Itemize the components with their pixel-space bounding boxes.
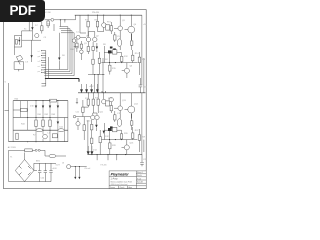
resistor R13: [121, 53, 123, 63]
svg-text:C1: C1: [76, 32, 79, 34]
resistor R21d: [99, 137, 101, 143]
svg-text:Q1: Q1: [84, 43, 88, 45]
diode D10: [108, 128, 112, 131]
transistor Q3 power: [128, 26, 135, 33]
svg-text:K1: K1: [24, 29, 27, 31]
relay RL2: [106, 101, 110, 106]
svg-text:R42: R42: [45, 114, 50, 116]
fuse F3: [58, 129, 64, 132]
svg-text:R29: R29: [142, 137, 147, 139]
resistor R35: [16, 133, 18, 139]
svg-text:J3: J3: [62, 163, 65, 165]
svg-text:in L: in L: [38, 51, 41, 53]
resistor R27: [132, 127, 134, 140]
svg-text:C20: C20: [41, 178, 46, 180]
svg-text:R43: R43: [52, 114, 57, 116]
resistor R26: [121, 130, 123, 139]
wire: [71, 167, 87, 177]
wire bus bracket 3: [44, 31, 72, 74]
diode D2: [31, 40, 33, 62]
svg-text:+35V: +35V: [89, 86, 94, 88]
ground bus: [45, 79, 79, 82]
switch SW1: [35, 149, 37, 151]
capacitor C8: [38, 163, 41, 181]
node A: [60, 19, 61, 20]
svg-text:Drawn: Drawn: [110, 186, 115, 189]
svg-text:R14: R14: [135, 53, 140, 55]
resistor R15: [109, 63, 111, 75]
svg-text:+50: +50: [143, 24, 147, 26]
svg-text:Q3: Q3: [122, 20, 126, 22]
svg-text:D14: D14: [93, 150, 98, 152]
svg-text:Check: Check: [120, 187, 125, 189]
resistor R18: [92, 93, 94, 113]
wire: [9, 150, 51, 181]
svg-text:C15: C15: [117, 113, 122, 115]
wire: [75, 36, 86, 38]
svg-text:AC 230V: AC 230V: [8, 146, 17, 149]
diode arrow: [80, 84, 82, 92]
svg-text:R26: R26: [124, 133, 129, 135]
capacitor C5 input: [73, 115, 76, 118]
resistor R16: [138, 52, 140, 75]
resistor R9: [87, 42, 89, 54]
wire: [80, 15, 104, 36]
svg-text:Q10: Q10: [87, 121, 92, 123]
connector J1: [45, 51, 47, 80]
wire stubs below rail: [97, 155, 117, 161]
svg-text:D7: D7: [35, 25, 38, 27]
diode arrow: [90, 84, 92, 92]
wire: [93, 113, 97, 115]
resistor R5: [76, 39, 78, 52]
wire: [32, 150, 49, 156]
fuse F1: [51, 18, 54, 21]
bridge rectifier BR1: [15, 160, 34, 182]
svg-text:fb: fb: [5, 82, 6, 84]
svg-text:RY1: RY1: [107, 22, 112, 24]
wire: [53, 24, 55, 31]
wire ladder verticals: [9, 83, 68, 142]
wire left branch: [14, 36, 21, 56]
wire input corner: [22, 22, 41, 40]
power rail 0V: [78, 92, 146, 94]
transistor Q1: [103, 15, 105, 31]
svg-text:Size A4: Size A4: [137, 181, 143, 184]
resistor R32: [35, 120, 37, 127]
resistor R7: [97, 15, 99, 31]
transistor Q5: [93, 37, 97, 41]
wire: [95, 58, 103, 93]
svg-text:ETI-480: ETI-480: [101, 164, 107, 166]
wire bus bracket 4: [44, 33, 74, 76]
svg-text:Q6: Q6: [130, 66, 134, 68]
phono plug P1: [16, 55, 22, 61]
wire mid row ch1: [101, 62, 137, 64]
wire: [76, 98, 89, 107]
resistor R21: [83, 117, 85, 140]
svg-text:T1: T1: [10, 157, 13, 159]
resistor R29: [138, 129, 140, 152]
node stub: [102, 91, 103, 92]
svg-text:Playmaster: Playmaster: [111, 172, 130, 176]
resistor R36: [52, 134, 57, 138]
svg-text:D8: D8: [62, 55, 65, 57]
transistor Q13: [124, 145, 129, 150]
node arrow: [5, 109, 9, 111]
svg-text:Scale: Scale: [137, 178, 141, 180]
diode D3: [58, 33, 60, 70]
diode D9: [113, 128, 116, 130]
svg-text:1-Amp: 1-Amp: [111, 178, 119, 181]
potentiometer VR1: [72, 39, 76, 43]
transistor Q1b: [80, 50, 84, 54]
capacitor C7: [140, 155, 144, 167]
svg-text:R28: R28: [112, 145, 117, 147]
wire bias row ch2: [104, 123, 121, 140]
svg-text:D10: D10: [30, 106, 35, 108]
capacitor C6: [117, 119, 121, 127]
svg-text:R8: R8: [103, 44, 106, 46]
wire: [87, 120, 89, 155]
ground arrow: [87, 146, 90, 154]
diode D8: [110, 126, 113, 128]
capacitor C10: [49, 163, 52, 181]
diode D13c: [103, 131, 106, 134]
resistor R34: [49, 120, 51, 127]
diode D13b: [95, 125, 98, 128]
wire bias row: [104, 46, 121, 63]
wire: [89, 32, 95, 38]
svg-text:+40V: +40V: [52, 168, 57, 170]
svg-text:F2: F2: [33, 135, 36, 137]
svg-text:pwr: pwr: [38, 71, 41, 73]
relay RL1: [106, 25, 110, 30]
svg-text:Stereo amplifier main PCB: Stereo amplifier main PCB: [111, 180, 133, 183]
svg-text:R44: R44: [21, 124, 26, 126]
svg-text:SC-310: SC-310: [44, 12, 52, 14]
resistor R14: [132, 50, 134, 63]
resistor R6: [87, 15, 89, 36]
power rail ch1: [75, 14, 142, 16]
resistor R9b: [92, 42, 94, 59]
resistor R22: [110, 102, 112, 113]
transistor Q10: [95, 115, 99, 119]
resistor R12: [113, 50, 117, 54]
resistor R30: [50, 99, 57, 102]
ground arrow: [78, 177, 80, 179]
svg-text:R40: R40: [15, 99, 20, 101]
ground stub J1: [42, 80, 46, 86]
svg-text:R12: R12: [124, 56, 129, 58]
capacitor C4: [139, 78, 143, 93]
svg-text:R27: R27: [135, 130, 140, 132]
wire input feed: [45, 15, 76, 20]
wire: [25, 153, 66, 160]
capacitor C9: [44, 163, 47, 181]
fuse F2: [36, 129, 43, 132]
svg-text:0V rail: 0V rail: [85, 168, 91, 170]
capacitor C2 input: [76, 35, 80, 39]
diode D7: [108, 50, 112, 53]
svg-text:Q13: Q13: [122, 100, 127, 102]
svg-text:R41: R41: [38, 114, 43, 116]
wire AC input: [9, 149, 25, 151]
svg-text:Q16: Q16: [130, 143, 135, 145]
svg-text:PM-480: PM-480: [92, 12, 100, 14]
wire: [34, 163, 56, 170]
diode D11: [35, 106, 37, 109]
svg-text:C5: C5: [117, 36, 120, 38]
diode arrow: [85, 84, 87, 92]
svg-text:Q14: Q14: [134, 104, 139, 106]
diode D12: [42, 106, 44, 109]
svg-text:Q4: Q4: [134, 24, 138, 26]
svg-text:Sheet 1: Sheet 1: [137, 171, 143, 174]
wire 0V row: [88, 74, 105, 76]
transistor Q9: [91, 115, 95, 119]
resistor R20: [82, 107, 84, 112]
transistor Q10b: [76, 122, 80, 126]
resistor R31: [13, 109, 28, 111]
svg-text:R15: R15: [112, 68, 117, 70]
ground arrow: [74, 177, 76, 179]
resistor R28: [109, 140, 111, 155]
svg-text:R21: R21: [47, 24, 52, 26]
resistor R1: [41, 22, 43, 34]
resistor R3b: [15, 40, 17, 45]
wire right column: [143, 58, 145, 93]
speaker box LS1: [14, 61, 24, 69]
title block: [109, 171, 146, 189]
wire trunk ch2: [141, 93, 143, 155]
svg-text:C11: C11: [76, 112, 80, 114]
diode D13: [49, 106, 51, 109]
resistor R17: [87, 93, 89, 107]
diode D1: [31, 27, 33, 30]
node B: [64, 19, 65, 20]
transistor Q2: [118, 26, 123, 31]
svg-text:gnd: gnd: [38, 56, 41, 58]
resistor R24: [131, 114, 133, 130]
svg-text:Q11: Q11: [100, 112, 105, 114]
transistor Q6: [124, 68, 129, 73]
resistor R25: [113, 127, 117, 131]
wire: [60, 20, 65, 27]
svg-text:D2: D2: [105, 59, 108, 61]
svg-text:D12: D12: [105, 136, 110, 138]
resistor R11: [131, 34, 133, 50]
wire right column ch2: [143, 140, 145, 152]
svg-text:LS: LS: [26, 62, 29, 64]
capacitor C1: [35, 34, 39, 38]
svg-text:out: out: [38, 65, 41, 68]
transistor Q11: [118, 106, 123, 111]
capacitor C3: [117, 39, 121, 47]
resistor R9d: [98, 58, 100, 63]
transistor Q8: [109, 97, 113, 101]
diode arrow: [96, 84, 98, 92]
fuse F4: [25, 149, 33, 152]
resistor R10a: [110, 22, 112, 34]
resistor R8: [80, 41, 82, 50]
resistor R33: [42, 120, 44, 127]
node dots rail: [88, 92, 89, 93]
wire mid row ch2: [102, 139, 138, 141]
resistor ladder rails: [13, 100, 68, 102]
output connector: [67, 165, 71, 169]
svg-text:+15: +15: [143, 87, 147, 89]
svg-text:R16: R16: [142, 59, 147, 61]
resistor R23: [114, 111, 116, 122]
svg-text:C22: C22: [143, 159, 148, 161]
node dots ladder: [27, 117, 28, 118]
svg-text:C9: C9: [44, 37, 47, 39]
ground arrow: [91, 146, 94, 154]
wire: [73, 100, 90, 117]
transformer T1: [49, 154, 56, 157]
wire trunk ch1: [141, 15, 143, 85]
diode D1b: [18, 40, 20, 42]
wire bus bracket 1: [44, 27, 68, 70]
wire: [47, 57, 49, 79]
svg-text:D11: D11: [60, 127, 64, 129]
diode D15: [57, 122, 59, 125]
resistor R9c: [92, 59, 94, 64]
svg-text:in R: in R: [38, 61, 42, 63]
transistor Q12 power: [128, 106, 135, 113]
power rail bottom: [88, 154, 143, 156]
resistor R10: [114, 32, 116, 42]
svg-text:OUT: OUT: [56, 165, 61, 167]
wire: [74, 45, 79, 47]
lamp LP1: [43, 134, 48, 139]
svg-text:Appr: Appr: [129, 186, 133, 189]
transistor Q7: [103, 93, 105, 100]
transistor Q4: [86, 37, 90, 41]
diode D6: [113, 48, 116, 50]
svg-text:Q2: Q2: [96, 36, 100, 38]
diode D5: [110, 47, 113, 49]
svg-text:BR1: BR1: [36, 161, 41, 163]
resistor R21c: [91, 138, 93, 144]
diode D14: [57, 106, 59, 109]
resistor R2: [47, 20, 49, 28]
resistor R21b: [91, 120, 93, 138]
resistor R19: [97, 93, 99, 113]
wire bus bracket 2: [44, 29, 70, 72]
diode D4: [96, 47, 98, 50]
